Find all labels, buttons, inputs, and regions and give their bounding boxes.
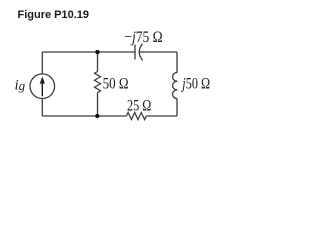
wire middle branch lower xyxy=(97,93,99,117)
resistor 25ohm zigzag xyxy=(126,112,146,119)
svg-text:j50 Ω: j50 Ω xyxy=(181,76,211,93)
capacitor C plate curved xyxy=(139,44,142,61)
capacitor C plate left xyxy=(134,45,136,60)
resistor 50ohm zigzag xyxy=(95,72,101,93)
wire middle branch upper xyxy=(97,52,99,72)
wire bottom horizontal left xyxy=(42,115,126,117)
svg-text:50 Ω: 50 Ω xyxy=(103,75,129,92)
wire top-left horizontal xyxy=(42,51,135,53)
wire right branch upper xyxy=(176,52,178,73)
wire left branch lower xyxy=(41,99,43,116)
wire bottom horizontal right xyxy=(146,115,177,117)
current source arrow xyxy=(40,77,45,97)
svg-text:Figure P10.19: Figure P10.19 xyxy=(18,9,90,21)
wire top-right horizontal xyxy=(140,51,177,53)
junction node bottom xyxy=(95,114,99,118)
inductor coil j50 xyxy=(173,73,178,99)
wire right branch lower xyxy=(176,99,178,116)
svg-text:ig: ig xyxy=(15,78,26,94)
wire left branch upper xyxy=(41,52,43,74)
junction node top xyxy=(95,50,99,54)
svg-text:−j75 Ω: −j75 Ω xyxy=(124,29,162,46)
current source circle xyxy=(30,74,55,99)
svg-text:25 Ω: 25 Ω xyxy=(127,97,151,114)
